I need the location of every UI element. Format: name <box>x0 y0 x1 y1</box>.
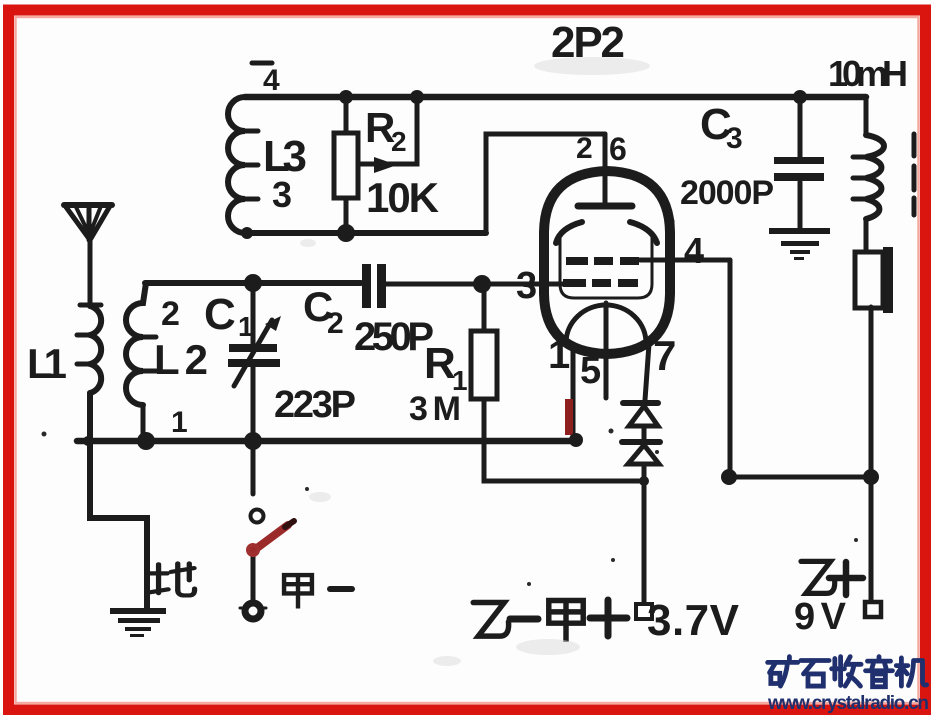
tube pin 1 lead <box>571 345 576 441</box>
tube filament dome <box>566 305 646 343</box>
label 乙+ <box>801 561 835 593</box>
antenna <box>64 202 112 208</box>
svg-text:3.7V: 3.7V <box>647 596 740 645</box>
inductor L4 10mH choke <box>866 135 884 219</box>
svg-text:5: 5 <box>580 350 601 392</box>
svg-text:1: 1 <box>238 311 254 342</box>
wire earphone to 9V <box>869 307 874 602</box>
wire C2 to grid pin 3 <box>386 282 563 287</box>
wire rail to choke <box>864 97 869 135</box>
capacitor C3 plates <box>774 157 824 164</box>
wire L2 to bus <box>141 405 146 441</box>
red mark on pin 1 <box>565 399 573 435</box>
label 乙- <box>473 603 508 637</box>
svg-text:1: 1 <box>548 333 570 377</box>
tube V1 2P2 envelope <box>544 171 670 354</box>
svg-text:7: 7 <box>653 332 676 379</box>
svg-text:2: 2 <box>391 126 407 157</box>
mark over 4 <box>252 61 272 66</box>
earphone B <box>855 252 883 308</box>
resistor R1 <box>482 284 487 331</box>
potentiometer R2 wiper <box>360 97 417 164</box>
inductor L2 coil <box>126 283 146 405</box>
svg-text:4: 4 <box>684 230 704 271</box>
wire L1 to earth <box>90 393 147 609</box>
svg-text:223P: 223P <box>274 384 356 426</box>
resistor R2 body <box>334 133 358 198</box>
svg-text:L1: L1 <box>27 340 67 387</box>
switch lever red <box>248 521 294 555</box>
diode D2 <box>622 439 660 445</box>
label 地 <box>149 564 195 596</box>
wire tank top <box>145 280 361 286</box>
wire L3 bottom to tube top cap <box>486 134 605 233</box>
svg-text:1: 1 <box>171 406 188 439</box>
tube pin 5 stub <box>604 303 609 398</box>
switch S to 甲- <box>251 441 256 494</box>
ground earth 地 <box>110 608 166 614</box>
capacitor C3 leads <box>798 97 803 229</box>
svg-text:6: 6 <box>609 131 627 167</box>
diode D1 <box>623 400 658 406</box>
label 甲- <box>284 575 312 606</box>
capacitor C1 variable <box>251 283 256 345</box>
wire antenna lead <box>88 240 93 305</box>
label 甲+ <box>549 601 583 640</box>
tube grid dashes <box>566 257 588 265</box>
svg-text:10mH: 10mH <box>828 53 908 94</box>
svg-text:9V: 9V <box>794 596 847 638</box>
svg-text:C: C <box>204 290 236 339</box>
watermark 矿石收音机 <box>768 657 927 687</box>
svg-text:2000P: 2000P <box>680 174 774 212</box>
resistor R2 leads <box>344 97 349 233</box>
svg-text:2: 2 <box>161 295 180 333</box>
tube pin 4 lead <box>640 258 730 263</box>
inductor L1 coil <box>90 306 101 393</box>
svg-text:3: 3 <box>726 122 743 155</box>
tube inner box <box>560 238 652 298</box>
tube pin 7 lead <box>645 344 649 400</box>
svg-text:250P: 250P <box>354 315 434 359</box>
terminal 甲+ 3.7V <box>636 604 652 619</box>
svg-text:R: R <box>424 339 456 388</box>
svg-text:3: 3 <box>272 174 292 215</box>
terminal 乙+ 9V <box>865 602 881 617</box>
tube top cap lead pins 2 6 <box>603 134 608 206</box>
svg-text:www.crystalradio.cn: www.crystalradio.cn <box>767 693 929 714</box>
svg-text:10K: 10K <box>366 174 439 221</box>
wire main bus <box>77 438 577 445</box>
wire top rail <box>245 94 866 101</box>
svg-text:2: 2 <box>576 132 593 165</box>
tube plate arcs <box>556 222 582 243</box>
svg-text:3: 3 <box>516 265 537 307</box>
svg-text:2: 2 <box>327 307 344 340</box>
capacitor C2 plates <box>362 264 371 308</box>
svg-text:3 M: 3 M <box>409 390 461 428</box>
svg-text:4: 4 <box>263 64 280 97</box>
inductor L3 coil bumps <box>228 97 245 233</box>
wire L3 bottom <box>245 230 486 236</box>
ground for C3 <box>769 228 830 234</box>
wire diodes to 3.7V terminal <box>642 464 647 604</box>
